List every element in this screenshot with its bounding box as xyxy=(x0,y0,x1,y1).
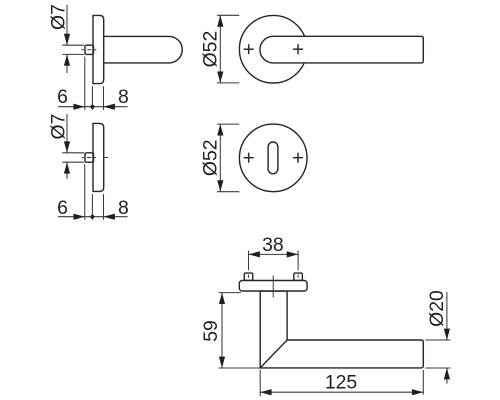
svg-text:Ø20: Ø20 xyxy=(426,290,448,327)
svg-text:38: 38 xyxy=(262,234,284,256)
svg-text:Ø52: Ø52 xyxy=(200,139,222,176)
svg-text:59: 59 xyxy=(200,320,222,342)
svg-text:6: 6 xyxy=(57,86,68,108)
svg-text:125: 125 xyxy=(325,372,357,394)
svg-text:Ø7: Ø7 xyxy=(48,114,70,140)
svg-text:6: 6 xyxy=(57,197,68,219)
svg-text:Ø7: Ø7 xyxy=(48,4,70,30)
svg-text:Ø52: Ø52 xyxy=(200,31,222,68)
svg-text:8: 8 xyxy=(118,197,129,219)
svg-text:8: 8 xyxy=(118,86,129,108)
